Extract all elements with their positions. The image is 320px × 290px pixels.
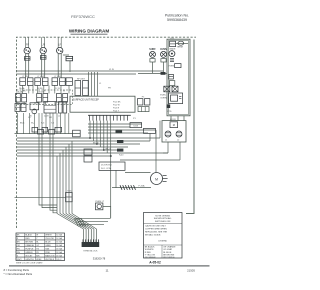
svg-text:LR: LR [42, 44, 45, 47]
svg-text:ORANGE: ORANGE [25, 244, 34, 247]
wire K1 to buzzer [176, 42, 188, 44]
svg-text:RTD: RTD [167, 111, 172, 113]
contact pair tall [59, 102, 63, 113]
svg-text:ELEC: ELEC [160, 94, 166, 96]
svg-text:REPLACING. SEE THE: REPLACING. SEE THE [145, 230, 168, 233]
svg-text:BAKE: BAKE [170, 47, 176, 50]
svg-text:2C 3C: 2C 3C [55, 88, 61, 90]
svg-text:P4-2 W: P4-2 W [113, 104, 120, 106]
svg-text:WIRING DIAGRAM: WIRING DIAGRAM [69, 29, 109, 34]
svg-text:PR PURPLE: PR PURPLE [163, 257, 175, 259]
svg-text:INSTALL GUIDE.: INSTALL GUIDE. [145, 233, 161, 236]
svg-text:SURFACE UNIT RECEP: SURFACE UNIT RECEP [73, 98, 100, 101]
svg-text:OVEN: OVEN [168, 66, 175, 68]
main harness connector block [82, 242, 100, 247]
wire lamp to rail [103, 206, 111, 218]
svg-text:YELLOW: YELLOW [45, 238, 53, 240]
svg-text:2A 3A: 2A 3A [19, 87, 25, 90]
wire bus-to-receptacle verticals [88, 72, 90, 96]
wire horizontals bend zone [75, 217, 111, 219]
terminal marks EOC left [169, 74, 174, 79]
svg-text:RR: RR [25, 44, 29, 47]
connector P1 pin header [88, 114, 131, 116]
wire L1 bus [17, 70, 164, 72]
svg-text:BK BLACK: BK BLACK [145, 246, 155, 249]
svg-text:MAROON: MAROON [45, 254, 55, 257]
terminal pair TB1 [138, 99, 143, 105]
svg-text:VIOLET: VIOLET [25, 255, 33, 257]
svg-text:OR ORANGE: OR ORANGE [163, 246, 176, 249]
element block RF (contact pair) [16, 94, 21, 103]
wire bundle horizontals [17, 137, 160, 139]
wire feeds from dashed rail to switches [25, 37, 27, 47]
svg-text:8" UNIT: 8" UNIT [22, 76, 30, 78]
oven control EOC box [167, 39, 190, 116]
pilot lamp below SW2 [40, 56, 46, 60]
element block maintop (contact pair) [57, 94, 62, 103]
svg-text:GN/Y: GN/Y [17, 259, 23, 261]
svg-text:FEF376WCC: FEF376WCC [71, 14, 95, 19]
svg-text:18 GA: 18 GA [56, 254, 62, 257]
svg-text:Publication No.: Publication No. [165, 14, 189, 18]
connector pin ticks [82, 239, 84, 242]
svg-text:DLB: DLB [134, 125, 139, 127]
splice blobs on bundle wires [117, 140, 123, 143]
relay box 2 [144, 128, 156, 133]
svg-text:BK-30: BK-30 [93, 142, 99, 144]
svg-text:TERM BLOCK: TERM BLOCK [83, 251, 98, 253]
svg-text:OR-22: OR-22 [105, 148, 112, 150]
svg-text:120V: 120V [44, 115, 49, 117]
motor terminals [163, 175, 167, 177]
DLB relay box [130, 123, 142, 128]
svg-text:GRN/YEL: GRN/YEL [25, 259, 35, 261]
svg-text:TERM: TERM [177, 47, 183, 49]
door switch box [99, 162, 125, 170]
svg-text:105 C: 105 C [56, 259, 62, 261]
svg-text:DOOR SW: DOOR SW [101, 165, 113, 167]
svg-text:TAN: TAN [45, 247, 49, 250]
sensor terminal [167, 104, 171, 108]
wire right rail L2 [186, 40, 194, 214]
svg-text:NOTE: WIRING: NOTE: WIRING [155, 215, 170, 217]
lock motor M2 [170, 122, 178, 128]
svg-text:GRAY: GRAY [45, 244, 51, 247]
bundle elbows to verticals B [71, 141, 73, 214]
svg-text:18 GA: 18 GA [56, 251, 62, 254]
svg-text:2B 3B: 2B 3B [37, 88, 43, 90]
element block RR (contact pair) [20, 78, 26, 86]
lock switch LS1 [165, 131, 171, 137]
svg-text:21505: 21505 [187, 269, 195, 273]
svg-text:BLACK: BLACK [25, 234, 32, 237]
svg-text:OVEN: OVEN [160, 97, 167, 99]
terminal row TB2 [138, 107, 149, 112]
element block warmer (contact pair) [37, 94, 42, 103]
svg-text:BROWN: BROWN [25, 242, 33, 244]
svg-text:SHOWN WITH ALL: SHOWN WITH ALL [154, 217, 173, 220]
svg-text:GREEN: GREEN [25, 252, 33, 254]
clock motor circle in EOC [169, 51, 175, 57]
svg-text:14 GA: 14 GA [56, 237, 62, 240]
contact stack in EOC [170, 57, 174, 59]
svg-text:16 GA: 16 GA [56, 244, 62, 247]
svg-text:SWITCHES OFF: SWITCHES OFF [155, 221, 171, 223]
motor M1 [151, 173, 163, 185]
surface unit receptacle box [70, 96, 135, 112]
hatched fuse element [120, 185, 122, 190]
svg-text:A-05-02: A-05-02 [149, 261, 161, 265]
footer rule [9, 265, 210, 266]
connector verticals [83, 229, 85, 242]
wire switch SW2 drops to contacts [41, 74, 43, 78]
wire row2 to row3 verticals [17, 102, 19, 104]
svg-text:* = Non-Illustrated Parts: * = Non-Illustrated Parts [4, 272, 33, 276]
junction box JB [73, 130, 81, 137]
element block LR (contact pair) [35, 78, 41, 86]
diagonal wire fan [57, 214, 84, 230]
wire door switch to motor [125, 171, 151, 173]
limit switch single block [66, 78, 72, 86]
wire drops from P1 [89, 121, 91, 138]
svg-text:OVEN LT: OVEN LT [95, 201, 105, 203]
wire vertical from relay boxes [149, 133, 151, 141]
relay K1 in EOC [170, 41, 176, 46]
svg-text:COPPER WIRE WHEN: COPPER WIRE WHEN [145, 229, 167, 231]
pilot lamp below SW1 [24, 57, 30, 61]
console dashed border [17, 37, 197, 228]
relay RY3 with coil [30, 103, 39, 110]
receptacle contact pair [75, 81, 81, 96]
svg-text:14 GA: 14 GA [56, 234, 62, 237]
svg-text:N.O. COM: N.O. COM [101, 168, 111, 170]
element resistor right of SW3 [63, 54, 69, 56]
svg-text:318200-78: 318200-78 [93, 256, 106, 260]
buzzer BZ [178, 41, 184, 45]
svg-text:RED: RED [25, 238, 30, 240]
svg-text:BK W R Y: BK W R Y [79, 225, 89, 227]
svg-text:M: M [155, 177, 158, 181]
wires EOC to lock box [170, 116, 172, 121]
svg-text:WIRE COLOR CODE CHART: WIRE COLOR CODE CHART [16, 262, 43, 265]
wires upper right of bundle [88, 123, 142, 125]
svg-text:PINK: PINK [45, 252, 50, 254]
svg-text:11: 11 [105, 269, 108, 273]
wire color legend table [16, 233, 65, 261]
small fuse blocks [32, 127, 38, 132]
crossed relay contacts RY1 RY2 [164, 86, 170, 92]
wire bundle A verticals [39, 134, 57, 205]
svg-text:MR: MR [36, 255, 40, 257]
svg-text:RF UNIT: RF UNIT [77, 78, 86, 80]
small comp on wire y130 [116, 130, 123, 133]
svg-text:F-20A: F-20A [139, 184, 145, 187]
cap tops of long verticals [38, 130, 44, 134]
svg-text:OVEN: OVEN [160, 48, 167, 51]
terminal block TB3 [15, 103, 20, 111]
svg-text:# = Functioning Parts: # = Functioning Parts [4, 268, 30, 272]
wire row3 to band bus verticals [17, 113, 19, 134]
svg-text:5995368439: 5995368439 [167, 18, 187, 22]
bundle junction dots [89, 137, 91, 139]
svg-text:M: M [173, 123, 175, 127]
svg-text:PURPLE: PURPLE [25, 248, 34, 250]
svg-text:W: W [63, 91, 65, 93]
wire console bus to lamps [138, 73, 167, 75]
switch S2 in EOC [175, 64, 181, 68]
wire lock box to bundle [167, 142, 169, 153]
svg-text:P4-4 Y: P4-4 Y [113, 110, 120, 112]
wire lower horizontal [112, 187, 151, 189]
lock switch LS2 [176, 131, 182, 137]
wire L2 bus [17, 73, 137, 75]
transformer T1 [44, 102, 56, 113]
maintop dashed box [17, 90, 73, 105]
svg-text:W/BK: W/BK [36, 259, 42, 261]
door lock box [162, 121, 186, 142]
svg-text:16 GA: 16 GA [56, 241, 62, 244]
EOC inner module box [169, 93, 183, 104]
svg-text:LEGEND: LEGEND [158, 241, 167, 243]
svg-text:SURF: SURF [149, 48, 156, 51]
notes box [144, 213, 183, 259]
element block LF (contact pair) [52, 78, 58, 86]
svg-text:L1 N: L1 N [109, 69, 114, 71]
wire row1 to row2 verticals [22, 85, 24, 93]
svg-text:BLUE: BLUE [45, 242, 51, 244]
svg-text:18 GA: 18 GA [56, 247, 62, 250]
relay blocks on bundle [84, 149, 92, 155]
svg-text:GY GRAY: GY GRAY [163, 248, 173, 251]
svg-text:P4-3 R: P4-3 R [113, 107, 120, 109]
wire switch SW1 drops to contacts [25, 74, 27, 78]
svg-text:GN GREEN: GN GREEN [145, 257, 156, 259]
svg-text:W: W [36, 235, 38, 237]
svg-text:P4-1 BK: P4-1 BK [113, 101, 121, 103]
wire door box drop [115, 170, 117, 187]
svg-text:WHT/BLK: WHT/BLK [45, 259, 55, 261]
band bus wire [15, 133, 81, 135]
svg-text:CAUTION: USE ONLY: CAUTION: USE ONLY [145, 225, 166, 228]
svg-text:WHITE: WHITE [45, 235, 52, 237]
wire y197 [15, 197, 66, 199]
wire switch SW3 drops to contacts [57, 74, 59, 78]
